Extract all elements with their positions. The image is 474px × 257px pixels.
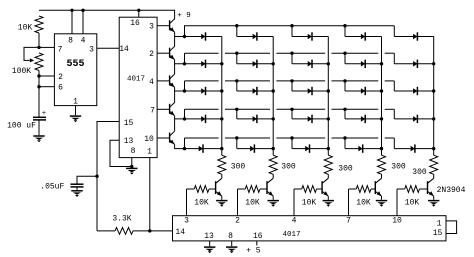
wire row 2 anode bus [185,53,395,64]
svg-text:+: + [42,110,46,118]
svg-text:10K: 10K [356,198,371,207]
ground below 4017 pin 8 [126,167,137,169]
wire LED D2 branch [237,36,273,38]
wire row 4 drop 2 [236,109,238,119]
LED D5 [413,34,417,40]
counter U2 4017 box [119,17,157,157]
node LED D14 cathode [380,89,383,92]
wire row 1 drop 5 [393,26,395,37]
resistor R4 300 [269,155,277,174]
wire row 5 drop 3 [291,138,293,149]
ground below C1 [33,135,44,137]
ground below C2 [71,190,82,192]
node LED D7 cathode [272,62,275,65]
wire 555 pin 1 to ground [75,106,77,116]
transistor Q9 2N3904 [375,181,381,196]
LED D6 [201,61,205,67]
wire row 4 drop 5 [393,109,395,119]
LED D23 [305,146,309,152]
wire row 5 drop 2 [236,138,238,149]
node LED D16 cathode [220,117,223,120]
wire row 5 drop 4 [344,138,346,149]
resistor R12 10K [405,186,420,193]
node LED D20 cathode [432,117,435,120]
wire LED D1 branch [185,36,222,38]
LED D9 [361,61,365,67]
wire column 4 [381,37,383,156]
wire row 2 drop 3 [291,53,293,64]
wire row 4 drop 4 [344,109,346,119]
wire LED D9 branch [345,63,382,65]
wire Q10 emitter to ground [433,196,435,200]
svg-text:10K: 10K [302,198,317,207]
wire 555 pin 6 [39,86,54,88]
wire collector bus segment 3 [174,91,176,103]
wire LED D23 branch [292,148,328,150]
op-amp U1 555 timer box [54,34,96,106]
svg-text:14: 14 [175,228,185,237]
node LED D17 cathode [272,117,275,120]
wire 3.3K to pin 14 [133,230,173,232]
wire .05uF tap [77,176,97,184]
wire row 1 drop 3 [291,26,293,37]
wire LED D19 branch [345,118,382,120]
resistor R2 100K pot [35,53,43,71]
node clock junction [148,229,151,232]
LED D15 [413,88,417,94]
svg-text:3: 3 [149,23,154,32]
ground below Q6 [216,200,227,202]
LED D17 [253,116,257,122]
potentiometer wiper [24,47,39,60]
capacitor C1 100uF [33,116,46,118]
LED D1 [201,34,205,40]
node pin2 junction [37,74,40,77]
wire 10K to base [420,188,428,190]
node row 1 [183,35,186,38]
wire 4017 pin 4 to Q3 base [157,80,170,82]
ground below Q10 [428,200,439,202]
wire row 3 drop 3 [291,81,293,91]
wire 555 pin 2 [39,75,54,77]
wire row 1 anode bus [185,26,395,37]
node row 3 drop 2 [235,79,238,82]
ground below pin 8 [226,246,237,248]
LED D11 [201,88,205,94]
node row 2 [183,62,186,65]
svg-text:8: 8 [228,232,233,241]
node row 4 drop 3 [290,108,293,111]
transistor Q7 2N3904 [267,181,273,196]
wire LED D22 branch [237,148,273,150]
node row 1 drop 4 [343,24,346,27]
svg-text:100K: 100K [12,67,31,76]
wire row 4 drop 3 [291,109,293,119]
transistor Q2 [170,46,175,59]
wire Q2 emitter to row 2 [175,60,185,64]
node pin4 rail junction [81,9,84,12]
svg-text:3.3K: 3.3K [112,215,131,224]
wire LED D25 branch [394,148,433,150]
svg-text:14: 14 [119,45,129,54]
transistor Q8 2N3904 [322,181,328,196]
wire 300 to Q6 collector [221,174,223,178]
node LED D23 cathode [327,147,330,150]
LED D3 [308,34,312,40]
resistor R9 10K [245,186,260,193]
LED D19 [361,116,365,122]
node LED D10 cathode [432,62,435,65]
wire LED D11 branch [185,90,222,92]
wire 4017 pin 8 to ground [131,158,133,167]
wire LED D24 branch [345,148,382,150]
wire LED D14 branch [345,90,382,92]
counter U3 4017 box [173,216,447,241]
LED D25 [411,146,415,152]
ground below 555 pin 1 [70,115,81,117]
wire Q9 emitter to ground [381,196,383,200]
node LED D9 cathode [380,62,383,65]
node row 5 drop 3 [290,136,293,139]
wire Q3 emitter to row 3 [175,87,185,91]
node LED D18 cathode [327,117,330,120]
wire LED D15 branch [394,90,433,92]
LED D2 [253,34,257,40]
wire 10K to base [209,188,216,190]
wire pin1-pin15 loop [446,221,457,234]
wire cap to ground [38,120,40,135]
wire row 1 drop 2 [236,26,238,37]
svg-text:7: 7 [150,106,155,115]
node pin8 ground junction [130,165,133,168]
svg-text:13: 13 [124,137,134,146]
LED D16 [201,116,205,122]
wire LED D10 branch [394,63,433,65]
wire 10K to base [260,188,267,190]
svg-text:10K: 10K [245,198,260,207]
svg-text:300: 300 [412,168,427,177]
wire LED D13 branch [292,90,328,92]
node pin6 junction [37,85,40,88]
svg-text:.05uF: .05uF [40,183,64,192]
svg-text:2N3904: 2N3904 [437,186,466,195]
resistor R8 10K [194,186,209,193]
wire Q6 emitter to ground [221,196,223,200]
resistor R6 300 [378,155,386,174]
wire LED D16 branch [185,118,222,120]
wire row 3 drop 5 [393,81,395,91]
svg-text:100 uF: 100 uF [7,122,36,131]
node row 2 drop 4 [343,52,346,55]
svg-text:7: 7 [346,217,351,226]
wire pin stub column 4 [348,189,350,216]
wire +9 supply rail [39,10,175,19]
wire 4017 pin 15 reset [97,122,119,231]
LED D14 [361,88,365,94]
wire row 4 anode bus [185,109,395,119]
wire LED D7 branch [237,63,273,65]
svg-text:10: 10 [392,217,402,226]
wire pin 16 to +5 [256,241,258,246]
svg-text:8: 8 [131,147,136,156]
wire row 3 drop 2 [236,81,238,91]
node pin7 junction [37,46,40,49]
svg-text:15: 15 [433,229,443,238]
resistor R3 300 [218,155,226,174]
wire Q4 emitter to row 4 [175,116,185,119]
transistor Q1 [170,19,175,32]
resistor R1 10K [35,16,43,33]
svg-text:15: 15 [124,119,134,128]
node row 5 drop 4 [343,136,346,139]
wire Q8 emitter to ground [327,196,329,200]
LED D21 [199,146,203,152]
wire collector bus segment 2 [174,64,176,74]
wire LED D12 branch [237,90,273,92]
node row 1 drop 3 [290,24,293,27]
svg-text:1: 1 [437,220,442,229]
wire C2 to ground [76,187,78,190]
wire LED D5 branch [394,36,433,38]
node row 2 drop 2 [235,52,238,55]
wire LED D17 branch [237,118,273,120]
LED D7 [253,61,257,67]
svg-text:2: 2 [58,73,63,82]
wire 300 to Q8 collector [327,174,329,178]
wire 4017 pin 1 to clock line [149,158,151,231]
node row 4 drop 2 [235,108,238,111]
svg-text:300: 300 [231,163,246,172]
LED D13 [308,88,312,94]
svg-text:16: 16 [130,19,140,28]
node .05uF junction [95,175,98,178]
svg-text:300: 300 [338,165,353,174]
resistor R10 10K [302,186,317,193]
svg-text:3: 3 [89,45,94,54]
wire row 1 drop 4 [344,26,346,37]
svg-text:300: 300 [391,163,406,172]
node LED D11 cathode [220,89,223,92]
svg-text:1: 1 [73,98,78,107]
capacitor C2 .05uF [71,183,84,185]
svg-text:300: 300 [281,163,296,172]
svg-text:555: 555 [66,59,84,70]
svg-text:10K: 10K [405,198,420,207]
wire 555 pin 8 to rail [71,10,73,34]
wire 4017 pin 16 to rail [138,10,140,17]
svg-text:10K: 10K [18,24,33,33]
node LED D8 cathode [327,62,330,65]
node row 3 drop 4 [343,79,346,82]
svg-text:13: 13 [204,232,214,241]
wire row 2 drop 5 [393,53,395,64]
wire reset to 3.3K [97,230,115,232]
wire column 5 [433,37,435,156]
ground below pin 13 [204,246,215,248]
LED D22 [250,146,254,152]
wire 4017 pin 3 to Q1 base [157,25,170,27]
transistor Q6 2N3904 [216,181,222,196]
resistor R11 10K [356,186,371,193]
wire LED D18 branch [292,118,328,120]
wire Q7 emitter to ground [272,196,274,200]
wire LED D21 branch [185,148,222,150]
wire 555 pin 3 to 4017 pin 14 [97,47,119,49]
LED D8 [308,61,312,67]
node LED D24 cathode [380,147,383,150]
wire 4017 pin 2 to Q2 base [157,52,170,54]
LED D12 [253,88,257,94]
wire collector bus segment 1 [174,37,176,47]
svg-text:2: 2 [235,217,240,226]
wire 10K to base [371,188,375,190]
wire 4017 pin 7 to Q4 base [157,108,170,110]
wire row 2 drop 4 [344,53,346,64]
ground below Q7 [268,200,279,202]
node LED D25 cathode [432,147,435,150]
node LED D22 cathode [272,147,275,150]
svg-text:10K: 10K [194,198,209,207]
transistor Q10 2N3904 [428,181,434,196]
wire 10K to base [317,188,323,190]
wire column 1 [221,37,223,156]
wire row 3 anode bus [185,81,395,91]
wire Q1 emitter to row 1 [175,32,185,36]
wire LED D20 branch [394,118,433,120]
resistor R7 300 [430,155,438,174]
transistor Q4 [170,103,175,116]
wire 555 pin 4 to rail [82,10,84,34]
svg-text:8: 8 [68,37,73,46]
node pin8 rail junction [70,9,73,12]
svg-text:3: 3 [184,217,189,226]
LED D20 [413,116,417,122]
wire Q5 emitter to row 5 [175,144,185,148]
LED D4 [361,34,365,40]
wire LED D3 branch [292,36,328,38]
wire 300 to Q9 collector [381,174,383,178]
wire 10K bottom to pin7 node [38,33,40,47]
LED D18 [308,116,312,122]
node row 5 drop 2 [235,136,238,139]
wire 4017 pin 10 to Q5 base [157,137,170,139]
node LED D15 cathode [432,89,435,92]
svg-text:4017: 4017 [127,76,145,84]
svg-text:1: 1 [147,148,152,157]
wire column 3 [327,37,329,156]
resistor R3 3.3K [115,228,133,235]
svg-text:4: 4 [292,217,297,226]
wire 300 to Q7 collector [272,174,274,178]
ground below Q8 [323,200,334,202]
LED D10 [413,61,417,67]
wire pin stub column 2 [237,189,239,216]
wire 4017 pin 13 to ground [110,140,132,166]
wire pin stub column 5 [396,189,398,216]
node LED D6 cathode [220,62,223,65]
node LED D21 cathode [220,147,223,150]
svg-text:7: 7 [58,45,63,54]
wire LED D8 branch [292,63,328,65]
svg-text:4: 4 [149,78,154,87]
svg-text:+ 5: + 5 [246,247,261,256]
node LED D12 cathode [272,89,275,92]
wire collector bus segment 4 [174,119,176,131]
wire pin stub column 3 [293,189,295,216]
node row 4 [183,117,186,120]
wire 300 to Q10 collector [433,174,435,178]
node row 2 drop 3 [290,52,293,55]
wire row 2 drop 2 [236,53,238,64]
ground below Q9 [376,200,387,202]
wire LED D6 branch [185,63,222,65]
svg-text:10: 10 [144,135,154,144]
wire row 3 drop 4 [344,81,346,91]
resistor R5 300 [324,155,332,174]
svg-text:2: 2 [149,50,154,59]
wire row 5 drop 5 [393,138,395,149]
svg-text:+ 9: + 9 [177,12,191,20]
svg-text:16: 16 [253,232,263,241]
wire 555 pin 7 [39,46,54,48]
node LED D19 cathode [380,117,383,120]
transistor Q5 [170,131,175,144]
node row 1 drop 2 [235,24,238,27]
wire pin stub column 1 [186,189,188,216]
node row 3 [183,89,186,92]
svg-text:4: 4 [81,37,86,46]
transistor Q3 [170,74,175,87]
node row 4 drop 4 [343,108,346,111]
wire column 2 [272,37,274,156]
wire row 5 anode bus [185,138,395,149]
wire pot bottom to cap [38,71,40,118]
node pin16 rail junction [137,9,140,12]
wire LED D4 branch [345,36,382,38]
LED D24 [358,146,362,152]
node LED D13 cathode [327,89,330,92]
svg-text:6: 6 [58,84,63,93]
node row 5 [183,147,186,150]
wire pin 8 to ground [231,241,233,246]
node row 3 drop 3 [290,79,293,82]
wire pin 13 to ground [209,241,211,246]
svg-text:4017: 4017 [282,231,300,239]
